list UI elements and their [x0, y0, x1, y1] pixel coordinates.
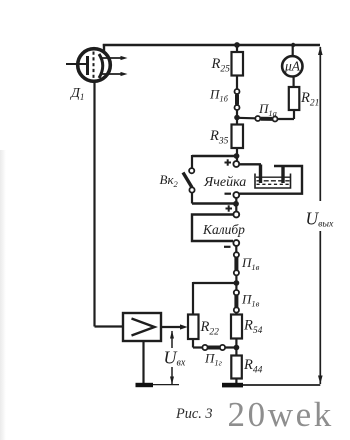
wire amp input	[95, 325, 124, 327]
wire amp ground lead	[142, 341, 144, 383]
svg-text:Калибр: Калибр	[202, 222, 245, 237]
potentiometer R22	[188, 315, 236, 348]
svg-text:Ячейка: Ячейка	[203, 175, 246, 190]
measurement line Uvyh	[318, 46, 323, 384]
svg-text:20wek: 20wek	[228, 395, 334, 434]
ground main	[222, 383, 243, 388]
wire amp output to R22 wiper	[161, 324, 188, 329]
wire to Vk2	[192, 155, 237, 157]
switch contact P1g	[202, 345, 225, 350]
measurement line Uvh	[170, 331, 174, 385]
wire to R22 top	[193, 282, 236, 284]
resistor R54	[231, 315, 242, 348]
node cell minus terminal	[225, 192, 240, 211]
resistor R35	[232, 125, 244, 162]
wire left column	[93, 81, 95, 327]
node junction to uA branch	[234, 115, 240, 121]
svg-text:μА: μА	[284, 59, 301, 74]
node junction R54 R44	[234, 345, 240, 351]
wire ground extension	[153, 384, 179, 386]
wire top rail	[103, 44, 320, 46]
meter uA	[282, 43, 302, 77]
amplifier U1	[123, 313, 161, 341]
calibration source Kalibr	[192, 205, 239, 252]
svg-text:Рис. 3: Рис. 3	[175, 406, 213, 422]
node top junction	[234, 42, 240, 48]
switch contact P1a	[255, 116, 294, 122]
resistor R21	[289, 77, 300, 119]
wire to P1a	[237, 117, 255, 120]
resistor R44	[231, 348, 242, 384]
node junction to Vk2	[234, 153, 240, 159]
switch contact P1v lower	[234, 290, 239, 315]
wire bottom to Uvyh rail	[243, 384, 320, 386]
switch Vk2	[183, 168, 234, 203]
node junction Vk2 return	[233, 201, 239, 207]
resistor R25	[232, 45, 244, 90]
electrolytic cell	[239, 164, 302, 193]
phototube D1	[66, 44, 128, 81]
node junction to R22	[234, 280, 240, 286]
switch contact P1v upper	[234, 252, 239, 290]
ground amp	[136, 383, 154, 387]
node cell plus terminal	[225, 159, 240, 167]
switch contact P1b	[235, 89, 240, 125]
